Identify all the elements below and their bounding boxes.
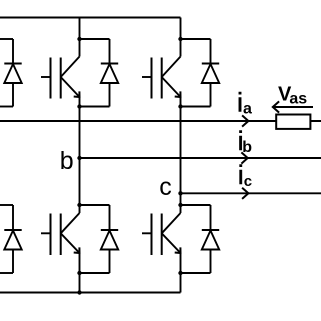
arrow ia [242, 115, 248, 126]
diode D5 (phase-c top antiparallel) [181, 39, 220, 107]
diode D4 (phase-b bottom antiparallel) [80, 205, 119, 273]
igbt Q4 (phase-b bottom) [41, 213, 80, 293]
wire phase-c output line ic [181, 192, 321, 194]
wire phase-c leg middle [180, 107, 182, 214]
wire phase-b output line ib [80, 157, 321, 159]
svg-text:c: c [159, 173, 172, 201]
wire top DC bus [0, 17, 181, 19]
wire bottom DC bus [0, 292, 181, 294]
node dots phase-b leg [77, 37, 81, 295]
arrow ic [242, 188, 248, 199]
diode D3 (phase-b top antiparallel) [80, 39, 119, 107]
resistor (stator phase-a winding) [276, 115, 310, 129]
arrow ib [241, 152, 247, 163]
arrow Vas (pointing left) [273, 101, 313, 112]
diode D2 (phase-a bottom, cut at left edge) [0, 205, 22, 273]
wire phase-b leg middle [79, 107, 81, 214]
igbt Q5 (phase-c top) [142, 18, 181, 107]
igbt Q6 (phase-c bottom) [142, 213, 181, 293]
diode D6 (phase-c bottom antiparallel) [181, 205, 220, 273]
svg-text:b: b [60, 147, 74, 175]
diode D1 (phase-a top, cut at left edge) [0, 39, 22, 107]
wire phase-a output line ia [0, 120, 321, 122]
node dots phase-c leg [178, 37, 182, 275]
igbt Q3 (phase-b top) [41, 18, 80, 107]
